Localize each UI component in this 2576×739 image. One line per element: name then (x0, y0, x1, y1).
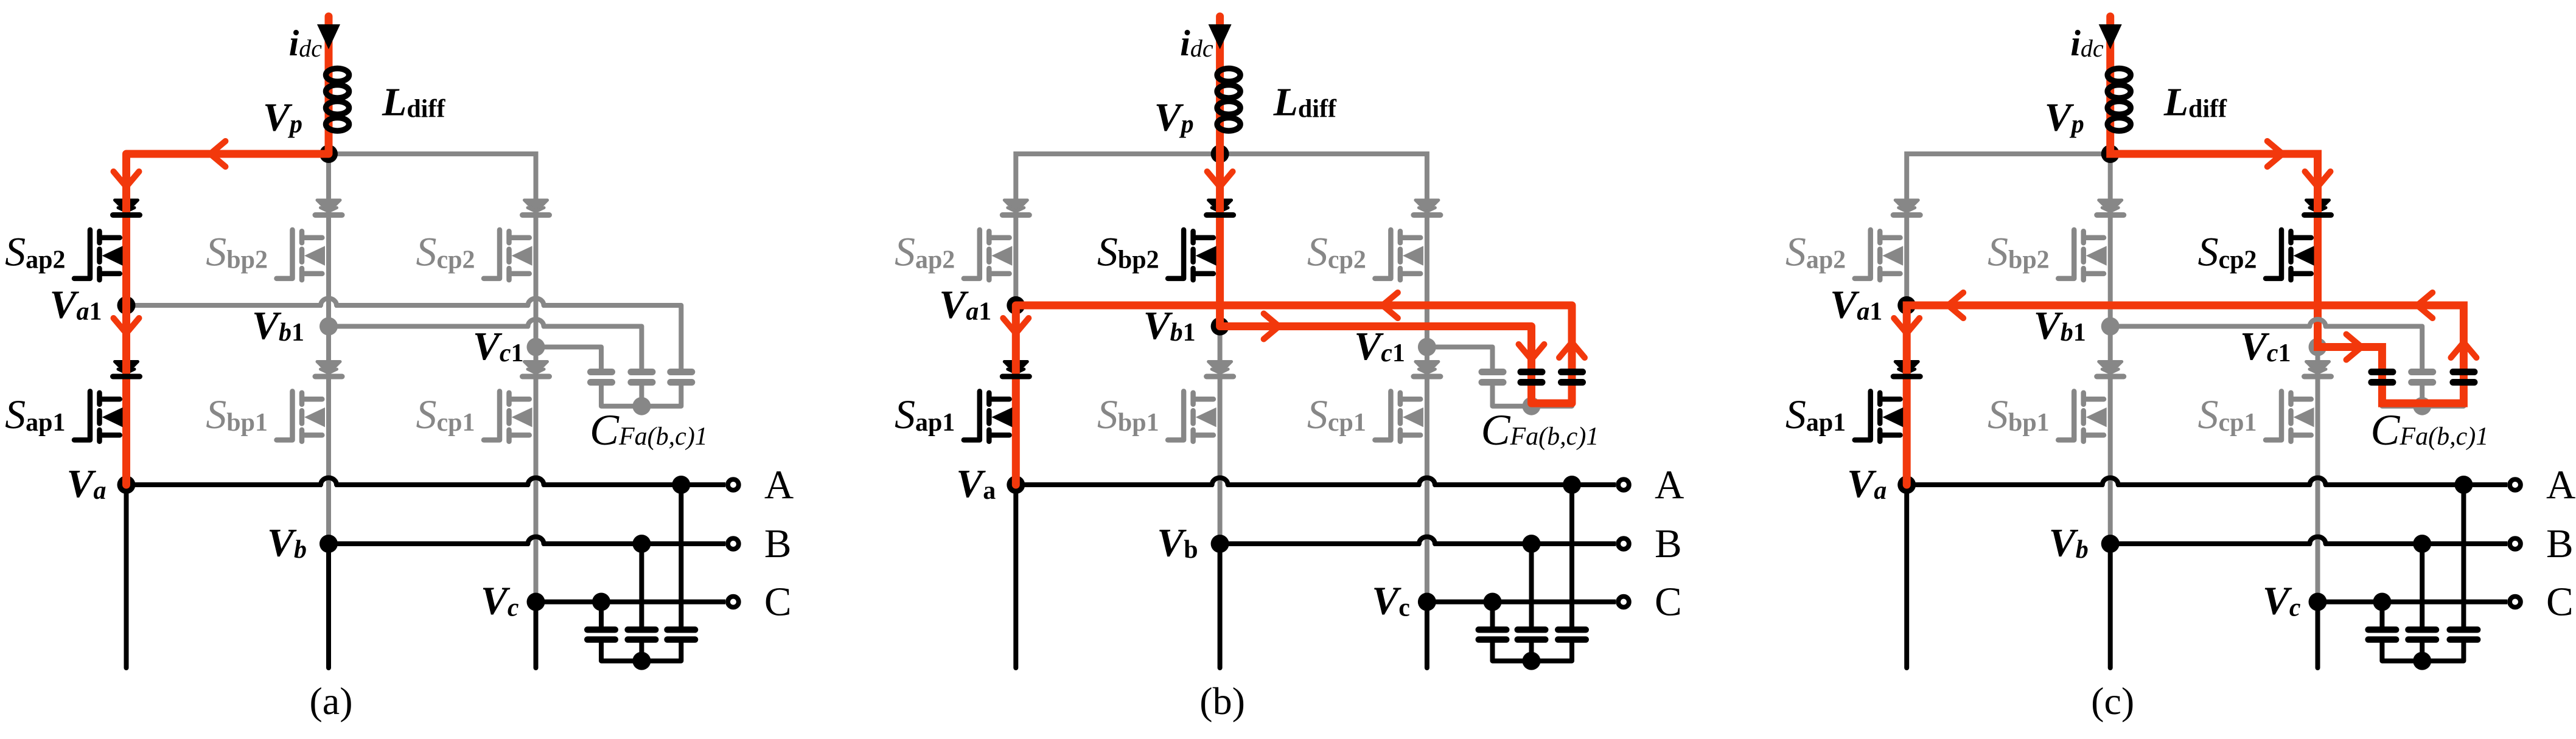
wire: output cap common bus (b) (1493, 643, 1572, 661)
terminal B (a) (728, 538, 739, 549)
diode Dap1 body (b) (1004, 362, 1027, 373)
capacitor output C (c) (2368, 626, 2396, 633)
current arrow on phase-a leg mid (b) (1003, 318, 1028, 333)
capacitor output C (a) (587, 626, 615, 633)
crossover hop Va1 link over b leg (a) (321, 299, 337, 305)
svg-text:B: B (764, 521, 792, 566)
capacitor CFb1 (a) (639, 386, 644, 406)
svg-text:B: B (2546, 521, 2574, 566)
wire: red current path (c) (1907, 16, 2463, 485)
terminal C (a) (728, 597, 739, 608)
inductor Ldiff (b) (1217, 69, 1240, 82)
wire: node Vb1 link to cap bank (a) (329, 324, 529, 329)
diode Dap2 (c) (1895, 200, 1918, 212)
wire: phase A bus (c) (1907, 482, 2104, 487)
diode Dcp1 (c) (2306, 362, 2330, 373)
junction A bus / cap (b) (1563, 476, 1581, 494)
transistor Sbp2 (a) (277, 230, 293, 279)
wire: node Va1 link to cap bank (a) (127, 303, 323, 308)
wire: output cap leg B (c) (2420, 544, 2424, 626)
capacitor CFa1 plates (b) (1562, 369, 1583, 375)
transistor Scp1 (c) (2266, 391, 2281, 440)
transistor Scp1 (b) (1375, 391, 1391, 440)
capacitor output B (a) (628, 626, 656, 633)
junction A bus / cap (a) (672, 476, 690, 494)
capacitor CFc1 plates (c) (2372, 369, 2393, 375)
crossover hop A bus over b leg (c) (2103, 478, 2118, 485)
diode Dbp2 (c) (2099, 200, 2122, 212)
wire: output cap leg A (a) (679, 485, 683, 626)
junction B bus / cap (a) (632, 535, 651, 553)
capacitor CFa1 plates (c) (2453, 369, 2474, 375)
wire: output cap common bus (c) (2382, 643, 2463, 661)
diode Dap2 cathode bar (a) (113, 212, 140, 218)
crossover hop A bus over b leg (b) (1212, 478, 1228, 485)
node Vp junction (b) (1211, 145, 1229, 163)
crossover hop A bus over c leg (a) (528, 478, 544, 485)
junction on output cap bus (a) (632, 652, 651, 670)
node Vc1 junction (b) (1418, 338, 1436, 356)
node Vc junction (c) (2309, 593, 2327, 611)
wire: output cap common bus (a) (601, 643, 681, 661)
transistor Sap1 (c) (1855, 391, 1871, 440)
inductor Ldiff (a) (326, 69, 349, 82)
crossover hop A bus over c leg (b) (1419, 478, 1435, 485)
svg-text:A: A (1655, 462, 1684, 507)
wire: node Vc1 link to cap bank (a) (536, 347, 602, 369)
wire: phase C bus (c) (2318, 600, 2508, 605)
transistor Sap2 (c) (1855, 230, 1871, 279)
wire: output cap leg C (a) (599, 602, 604, 627)
diode Dcp1 (a) (525, 362, 548, 373)
junction C bus / cap (a) (592, 593, 610, 611)
current arrow into cap CFb1 (b) (1519, 344, 1545, 359)
inductor Ldiff (c) (2107, 69, 2131, 82)
current idc arrowhead (b) (1209, 24, 1232, 49)
current arrow on dc bus (a) (211, 141, 226, 167)
wire: phase-b output stub (a) (326, 544, 331, 668)
svg-text:A: A (764, 462, 794, 507)
junction on output cap bus (b) (1523, 652, 1541, 670)
diode Dap2 body (a) (115, 200, 138, 212)
wire: phase-b output stub (b) (1218, 544, 1223, 668)
crossover hop Va1 link over c leg (a) (528, 299, 544, 305)
current arrow out of cap CFa1 (b) (1559, 342, 1585, 358)
wire: phase B bus (a) (329, 541, 529, 546)
diode Dap2 (b) (1004, 200, 1027, 212)
terminal A (a) (728, 479, 739, 490)
current arrow on phase-a leg mid (c) (1894, 318, 1919, 333)
node Vb1 junction (c) (2101, 317, 2120, 336)
wire: red current path (b) (1016, 16, 1572, 485)
wire: output cap leg B (b) (1529, 544, 1534, 626)
svg-text:(a): (a) (309, 679, 352, 723)
wire: phase-b leg lower (b) (1218, 327, 1223, 544)
transistor Scp2 (a) (484, 230, 500, 279)
node Va1 junction (b) (1007, 296, 1025, 314)
node Va junction (b) (1007, 476, 1025, 494)
wire: phase-c leg lower (c) (2316, 347, 2320, 602)
crossover hop B bus over c leg (a) (528, 537, 544, 544)
transistor Sap1 (a) (74, 391, 90, 440)
capacitor CFa1 (a) (671, 369, 692, 375)
diode Dap1 body (c) (1895, 362, 1918, 373)
wire: node Vc1 link to cap bank (b) (1427, 347, 1493, 369)
transistor Scp1 (a) (484, 391, 500, 440)
wire: phase-c output stub (a) (534, 602, 539, 668)
junction C bus / cap (c) (2373, 593, 2391, 611)
diode Dcp2 cathode bar (c) (2305, 212, 2331, 218)
diode Dap1 cathode bar (a) (113, 374, 140, 380)
capacitor CFc1 (b) (1482, 369, 1503, 375)
node Vc1 junction (a) (527, 338, 545, 356)
junction B bus / cap (b) (1523, 535, 1541, 553)
current arrow on Va1 link left (c) (1948, 293, 1963, 318)
node Va1 junction (c) (1897, 296, 1916, 314)
wire: flying-cap common bus (c) (2382, 386, 2463, 406)
diode Dbp2 cathode bar (b) (1207, 212, 1234, 218)
transistor Sbp2 (b) (1168, 230, 1184, 279)
capacitor output C (b) (1479, 626, 1507, 633)
diode Dap1 body (a) (115, 362, 138, 373)
svg-text:A: A (2546, 462, 2575, 507)
transistor Sap2 (b) (964, 230, 980, 279)
current arrow out of cap CFa1 (c) (2451, 342, 2476, 358)
terminal C (b) (1618, 597, 1629, 608)
junction B bus / cap (c) (2413, 535, 2431, 553)
capacitor output A (b) (1558, 626, 1586, 633)
wire: phase-c output stub (b) (1425, 602, 1429, 668)
capacitor output A (c) (2450, 626, 2478, 633)
wire: dc bus right segment (a) (329, 154, 536, 347)
wire: output cap leg C (b) (1490, 602, 1495, 627)
transistor Sbp1 (c) (2058, 391, 2074, 440)
capacitor CFc1 (a) (591, 369, 612, 375)
wire: phase-a output stub (b) (1013, 485, 1018, 668)
wire: phase C bus (a) (536, 600, 726, 605)
diode Dcp2 (b) (1415, 200, 1439, 212)
wire: red current path (a) (127, 16, 329, 485)
current idc arrowhead (a) (317, 24, 340, 49)
current arrow on phase-a leg upper (a) (114, 172, 139, 187)
svg-text:C: C (764, 580, 792, 625)
wire: output cap leg A (c) (2461, 485, 2466, 626)
crossover hop A bus over b leg (a) (321, 478, 337, 485)
wire: phase-a output stub (a) (124, 485, 129, 668)
transistor Sbp1 (a) (277, 391, 293, 440)
wire: phase-b leg (c) (2108, 154, 2113, 544)
capacitor output B (b) (1518, 626, 1546, 633)
crossover hop Vb1 link over c leg (a) (528, 319, 544, 327)
node Va1 junction (a) (117, 296, 136, 314)
junction on output cap bus (c) (2413, 652, 2431, 670)
capacitor CFb1 plates (b) (1521, 369, 1542, 375)
diode Dcp1 (b) (1415, 362, 1439, 373)
wire: dc bus left segment (c) (1907, 154, 2110, 305)
node Vp junction (a) (319, 145, 338, 163)
junction on cap common bus (b) (1523, 397, 1541, 415)
diode Dap1 cathode bar (b) (1002, 374, 1029, 380)
wire: phase A bus (a) (127, 482, 323, 487)
wire: phase A bus (b) (1016, 482, 1213, 487)
transistor Sbp2 (c) (2058, 230, 2074, 279)
transistor Scp2 (b) (1375, 230, 1391, 279)
transistor Sap1 (b) (964, 391, 980, 440)
wire: output cap leg B (a) (639, 544, 644, 626)
current arrow on Vc1 link (c) (2347, 335, 2362, 360)
wire: output cap leg A (b) (1569, 485, 1574, 626)
wire: phase B bus (c) (2110, 541, 2311, 546)
wire: dc bus (b) (1016, 154, 1427, 347)
svg-text:(b): (b) (1199, 679, 1245, 723)
transistor Sap2 (a) (74, 230, 90, 279)
diode Dbp1 (c) (2099, 362, 2122, 373)
terminal A (c) (2510, 479, 2521, 490)
capacitor CFb1 (c) (2420, 386, 2424, 406)
terminal A (b) (1618, 479, 1629, 490)
terminal B (b) (1618, 538, 1629, 549)
node Vp junction (c) (2101, 145, 2120, 163)
wire: phase C bus (b) (1427, 600, 1616, 605)
current arrow on phase-a leg mid (a) (114, 318, 139, 333)
junction A bus / cap (c) (2454, 476, 2473, 494)
diode Dbp1 (b) (1209, 362, 1232, 373)
current arrow on Va1 link right (c) (2417, 293, 2432, 318)
node Vb1 junction (a) (319, 317, 338, 336)
node Vb junction (b) (1211, 535, 1229, 553)
wire: output cap leg C (c) (2379, 602, 2384, 627)
crossover hop B bus over c leg (b) (1419, 537, 1435, 544)
crossover hop A bus over c leg (c) (2310, 478, 2326, 485)
diode Dbp1 (a) (317, 362, 340, 373)
junction on cap common bus (a) (632, 397, 651, 415)
capacitor output A (a) (668, 626, 696, 633)
wire: phase-c output stub (c) (2316, 602, 2320, 668)
wire: phase-b leg (a) (326, 154, 331, 544)
diode Dbp2 (a) (317, 200, 340, 212)
capacitor output B (c) (2408, 626, 2436, 633)
node Va junction (a) (117, 476, 136, 494)
current arrow on phase-c leg upper (c) (2305, 172, 2331, 187)
crossover hop Vb1 link over c leg (c) (2310, 319, 2326, 327)
node Vc junction (b) (1418, 593, 1436, 611)
wire: phase-a output stub (c) (1904, 485, 1909, 668)
crossover hop B bus over c leg (c) (2310, 537, 2326, 544)
node Vb1 junction (b) (1211, 317, 1229, 336)
terminal B (c) (2510, 538, 2521, 549)
wire: phase-c leg lower (a) (534, 347, 539, 602)
current arrow on Vb1 link (b) (1264, 314, 1279, 339)
diode Dcp2 (a) (525, 200, 548, 212)
junction on cap common bus (c) (2413, 397, 2431, 415)
current arrow on dc bus (c) (2267, 141, 2283, 167)
current arrow on Va1 link (b) (1383, 293, 1398, 318)
node Vc1 junction (c) (2309, 338, 2327, 356)
wire: phase-c leg lower (b) (1425, 347, 1429, 602)
svg-text:(c): (c) (2091, 679, 2134, 723)
svg-text:C: C (2546, 580, 2574, 625)
current idc arrowhead (c) (2099, 24, 2122, 49)
current arrow on phase-b leg (b) (1207, 172, 1233, 187)
transistor Sbp1 (b) (1168, 391, 1184, 440)
node Va junction (c) (1897, 476, 1916, 494)
svg-text:B: B (1655, 521, 1682, 566)
wire: node Vb1 link to cap bank (c) (2110, 324, 2311, 329)
wire: phase-b output stub (c) (2108, 544, 2113, 668)
wire: flying-cap common bus (b) (1493, 386, 1572, 406)
node Vb junction (a) (319, 535, 338, 553)
svg-text:C: C (1655, 580, 1682, 625)
transistor Scp2 (c) (2266, 230, 2281, 279)
terminal C (c) (2510, 597, 2521, 608)
junction C bus / cap (b) (1484, 593, 1502, 611)
wire: phase B bus (b) (1220, 541, 1420, 546)
wire: flying-cap common bus (a) (601, 386, 681, 406)
node Vb junction (c) (2101, 535, 2120, 553)
diode Dbp2 body (b) (1209, 200, 1232, 212)
diode Dap1 cathode bar (c) (1893, 374, 1920, 380)
diode Dcp2 body (c) (2306, 200, 2330, 212)
node Vc junction (a) (527, 593, 545, 611)
